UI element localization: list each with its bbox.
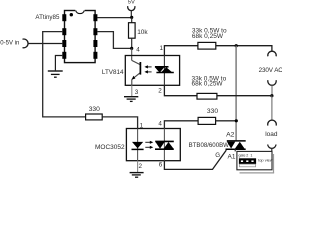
junction dot 230V bottom — [270, 94, 273, 97]
svg-text:A2: A2 — [226, 131, 235, 138]
svg-text:6: 6 — [159, 162, 163, 169]
wire A1 stub — [234, 149, 236, 151]
svg-text:68k 0,25W: 68k 0,25W — [192, 81, 224, 88]
svg-text:load: load — [265, 131, 278, 138]
svg-text:68k 0,25W: 68k 0,25W — [192, 33, 224, 40]
LED D1 inside MOC — [137, 129, 139, 161]
wire 230V junction to load — [271, 96, 273, 121]
wire 10k to junction pin4 — [131, 38, 133, 48]
svg-text:ATtiny85: ATtiny85 — [35, 14, 60, 21]
IC U1 pin 6 — [93, 40, 97, 47]
IC U1 pin 4 — [62, 52, 66, 59]
wire junction to 10k — [131, 17, 133, 22]
wire 230V bottom stem — [271, 85, 273, 95]
wire 33k bottom to 230V junction — [217, 95, 272, 97]
light arrows MOC — [145, 142, 150, 147]
connector 230V AC top pinhead — [268, 51, 276, 56]
pinout package body — [239, 158, 256, 164]
connector load top pinhead — [268, 120, 277, 126]
junction dot A2 — [235, 119, 238, 122]
svg-text:2: 2 — [246, 154, 248, 158]
transistor inside LTV814 — [132, 56, 141, 85]
pinout box shadow — [273, 154, 275, 173]
IC U1 pin1 dot — [70, 13, 73, 16]
triac Q1 bottom rail — [226, 148, 246, 150]
svg-text:1: 1 — [250, 154, 252, 158]
svg-text:2: 2 — [158, 87, 162, 94]
resistor R 10k body — [129, 23, 136, 39]
wire IC pin7 to junction — [97, 32, 131, 49]
wire junction into LTV pin4 — [131, 48, 133, 56]
ground GND1 below IC — [48, 71, 63, 77]
svg-text:top view: top view — [258, 158, 273, 163]
connector load bottom pinhead — [268, 145, 276, 149]
connector 230V AC bottom pinhead — [268, 80, 276, 85]
resistor R 33k bottom body — [197, 93, 217, 99]
svg-text:10k: 10k — [137, 29, 148, 36]
opto U2 LTV814 box — [125, 56, 179, 86]
pinout package tab — [239, 164, 255, 167]
LED pair (bowtie) LTV814 — [163, 56, 165, 86]
connector 5V pinhead — [128, 6, 135, 10]
wire LTV pin1 to 33k — [164, 46, 198, 56]
wire input to IC pin3 — [28, 43, 62, 45]
IC U1 pin 3 — [62, 40, 66, 47]
svg-text:gate: gate — [239, 154, 246, 158]
pinout box BTB08 top view — [237, 151, 272, 169]
wire 5V stem — [130, 11, 132, 18]
triac (bowtie) inside MOC — [163, 129, 165, 161]
resistor R330b body — [198, 117, 216, 124]
svg-text:G: G — [215, 152, 220, 159]
IC U1 pin 5 — [93, 52, 97, 59]
junction dot LTV pin4 — [130, 47, 133, 50]
wire IC pin2 to resistor R330a — [43, 32, 86, 117]
IC U1 pin 8 — [93, 14, 97, 21]
triac Q1 top rail — [227, 140, 246, 142]
svg-text:230V AC: 230V AC — [259, 67, 282, 74]
svg-text:A1: A1 — [228, 153, 236, 160]
wire R330a to MOC pin1 — [102, 117, 137, 129]
wire 330b to rail junction — [216, 120, 237, 122]
svg-text:MOC3052: MOC3052 — [95, 144, 125, 151]
wire LTV pin2 to 33k bottom — [164, 85, 197, 95]
svg-text:BTB08/600BW: BTB08/600BW — [189, 142, 230, 149]
svg-text:5V: 5V — [128, 0, 135, 6]
svg-text:4: 4 — [136, 47, 140, 54]
light arrows LTV814 — [147, 67, 151, 72]
svg-text:2: 2 — [139, 163, 143, 170]
ground GND3 below MOC — [130, 173, 144, 178]
wire rail1 vertical — [235, 46, 237, 141]
IC U1 pin 2 — [62, 28, 66, 35]
svg-text:330: 330 — [207, 108, 218, 115]
resistor R 33k top body — [198, 42, 216, 49]
svg-text:330: 330 — [89, 106, 100, 113]
IC U1 ATtiny85 body — [65, 11, 96, 63]
IC U1 pin 7 — [93, 28, 97, 35]
junction dot 5V — [130, 16, 133, 19]
triac Q1 triangles — [227, 142, 235, 149]
wire MOC pin6 to gate — [164, 150, 226, 169]
wire MOC pin4 to 330b — [164, 121, 198, 129]
wire LTV pin3 to ground — [131, 85, 133, 96]
junction dot rail top — [235, 44, 238, 47]
wire load bottom stem — [271, 148, 273, 151]
svg-text:4: 4 — [158, 120, 162, 127]
ground GND2 below LTV — [124, 97, 138, 102]
wire IC pin8 to 5V junction — [97, 17, 131, 19]
svg-text:3: 3 — [135, 89, 139, 96]
wire MOC pin2 to ground — [137, 161, 139, 173]
resistor R330a body — [86, 114, 103, 120]
wire IC pin4 to ground — [55, 56, 62, 71]
IC U1 pin 1 — [62, 14, 66, 21]
svg-text:LTV814: LTV814 — [102, 69, 124, 76]
IC U1 notch — [75, 9, 84, 11]
svg-text:1: 1 — [140, 122, 144, 129]
svg-text:1: 1 — [160, 45, 164, 52]
opto U3 MOC3052 box — [126, 129, 180, 161]
wire 33k to 230V AC top — [216, 46, 272, 52]
svg-text:0-5V in: 0-5V in — [0, 41, 19, 47]
connector 0-5V in pinhead — [23, 39, 29, 48]
